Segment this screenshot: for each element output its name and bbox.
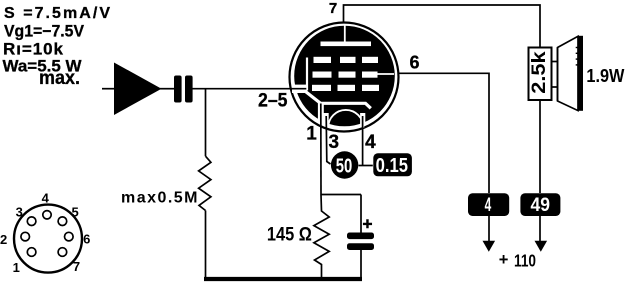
svg-text:2: 2 <box>0 232 7 247</box>
svg-text:3: 3 <box>16 205 23 220</box>
svg-text:0.15: 0.15 <box>376 155 408 177</box>
svg-text:S =7.5mA/V: S =7.5mA/V <box>4 5 110 22</box>
svg-text:5: 5 <box>71 205 78 220</box>
svg-text:+: + <box>499 251 509 269</box>
svg-text:7: 7 <box>73 259 80 274</box>
svg-text:1.9W: 1.9W <box>586 66 624 86</box>
svg-text:50: 50 <box>336 156 353 178</box>
svg-text:6: 6 <box>409 53 419 73</box>
svg-text:4: 4 <box>485 195 492 216</box>
svg-text:2–5: 2–5 <box>258 90 288 111</box>
svg-text:1: 1 <box>306 124 317 145</box>
svg-text:49: 49 <box>531 195 551 216</box>
svg-text:+: + <box>363 215 373 234</box>
svg-text:2.5k: 2.5k <box>529 51 550 94</box>
svg-text:145 Ω: 145 Ω <box>267 225 312 246</box>
svg-text:6: 6 <box>83 232 90 247</box>
svg-text:3: 3 <box>329 132 340 153</box>
svg-text:4: 4 <box>365 132 376 153</box>
svg-text:7: 7 <box>329 0 337 17</box>
svg-text:max.: max. <box>39 68 80 89</box>
svg-text:Vg1=−7.5V: Vg1=−7.5V <box>4 22 84 40</box>
svg-text:110: 110 <box>514 251 536 271</box>
svg-text:4: 4 <box>42 191 50 206</box>
svg-text:1: 1 <box>13 260 20 275</box>
svg-text:max0.5M: max0.5M <box>121 189 198 206</box>
